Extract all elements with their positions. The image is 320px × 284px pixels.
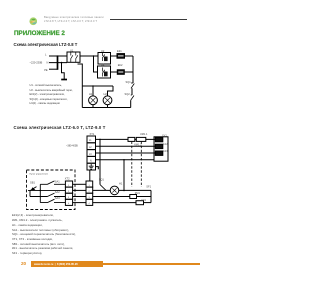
green heading [14,30,65,37]
wire U2 to EK1 [111,55,118,57]
terminal block XT1 [87,136,96,143]
SCHEMATIC 1 [0,0,200,284]
svg-text:2: 2 [89,191,91,193]
svg-text:Н1: Н1 [119,182,123,186]
legend schematic 1 [30,84,74,107]
PE down to terminal strip [89,170,91,181]
footer orange rule [103,263,200,265]
wire U1 to U2 [80,55,98,57]
contact KM1.2 [136,137,146,141]
SB1 arrow [31,187,37,191]
svg-text:L3: L3 [89,154,92,156]
dashed link KM1 left [131,142,133,187]
switch SQ1 [131,83,134,88]
control drop from L1 [99,139,101,184]
junction L feed to U3 [93,55,95,57]
wire PE [49,68,58,70]
lamp H1 [110,186,119,195]
svg-text:~380-400В: ~380-400В [66,145,78,148]
terminal strip right [86,181,93,187]
U1 contact a [71,52,73,62]
heater EK2 [117,70,124,75]
svg-text:4: 4 [68,203,70,205]
row link 2 [73,189,86,191]
lamp feed wire [82,85,113,87]
svg-text:3: 3 [89,197,91,199]
heater EK2 [155,144,163,148]
svg-text:КМ1.2: КМ1.2 [134,143,142,147]
svg-text:ХТ1: ХТ1 [90,132,95,136]
PE symbol in box5 [89,164,94,169]
wire to lamp [93,189,111,191]
EK box [154,137,168,161]
svg-text:SA1: SA1 [55,179,60,183]
junction lamp wire / N drop [123,190,125,192]
junction lamp H1 feed [92,85,94,87]
header logo [29,17,38,26]
svg-text:N: N [90,161,92,163]
control panel dashed box [27,170,76,210]
SA vertical link [39,184,41,202]
svg-text:1: 1 [68,185,70,187]
subtitle 1 [14,42,78,47]
wire L [49,55,67,57]
svg-text:L2: L2 [89,147,92,149]
N drop [123,160,125,191]
switch SQ2 [131,95,134,100]
SCHEMATIC 2 [0,0,200,284]
svg-text:SB1: SB1 [30,181,35,185]
lamp H1 drop [92,86,94,96]
phase wire L3 [96,152,156,154]
svg-text:SA2: SA2 [55,190,60,194]
ground branch wire [62,63,65,80]
wire EK1 to bus [125,55,134,57]
wire U3 to EK2 [111,71,118,73]
switch box U1 [67,52,80,62]
svg-text:ХТ2: ХТ2 [65,176,70,180]
svg-text:КМ1: КМ1 [135,191,141,195]
row link 4 [73,202,86,204]
lamp H2 [103,96,112,105]
phase wire L1 [96,138,156,140]
wire N exit down bus [78,64,83,108]
branch lower [93,202,136,204]
footer page number [21,261,26,266]
ground bar [61,79,67,81]
dashed link KM1 right [140,142,142,187]
right bus upper [132,56,134,83]
junction at N / ground branch [61,62,63,64]
wire EK2 to bus [124,71,133,73]
contact KM1.1 [128,137,135,141]
footer orange bar [31,261,104,267]
heater EK1 [155,137,163,141]
coil KM1 [130,195,137,199]
bottom bus [82,107,130,109]
switch SA3 row [40,199,65,202]
junction L1 / control drop [99,139,101,141]
wire N [96,159,155,161]
phase wire L2 [96,145,156,147]
thermostat U3 [98,66,111,78]
link B to C [29,190,31,196]
svg-text:КМ1.1: КМ1.1 [140,132,148,136]
lamp H2 elbow [108,86,114,96]
heater EK3 [155,151,163,155]
header rule [110,19,187,20]
svg-text:Пульт управления: Пульт управления [30,174,49,176]
svg-text:1: 1 [89,185,91,187]
svg-text:ЕК3: ЕК3 [163,149,168,153]
svg-text:4: 4 [89,203,91,205]
bus lower [130,100,132,107]
subtitle 2 [14,125,106,130]
svg-text:2: 2 [68,191,70,193]
terminal strip XT2 [65,181,72,187]
right bus [150,190,152,202]
branch to U3 [94,56,98,72]
header text [44,16,104,19]
wire N [49,62,67,64]
svg-text:SA3: SA3 [55,196,60,200]
row link 3 [73,196,86,198]
switch SB1 row [28,189,65,191]
svg-text:L1: L1 [89,140,92,142]
svg-text:SQ1: SQ1 [99,177,105,181]
coil branch [93,196,130,198]
bus mid [131,88,133,95]
svg-text:ЕК1: ЕК1 [162,133,167,137]
junction SB1 bus [40,190,42,192]
PE chassis wire [96,167,99,170]
XT2-XT3 row link 1 [73,183,86,185]
plug bar [57,55,59,69]
switch SA1 row [40,181,65,184]
svg-text:КК1: КК1 [142,198,147,202]
lamp to bus [119,189,151,191]
switch SQ1 [100,185,106,191]
heater EK1 [117,54,125,59]
thermostat U2 [98,53,111,65]
lamp H1 [89,96,98,105]
svg-text:SF1: SF1 [146,184,151,188]
legend schematic 2 [12,213,76,255]
junction N / lamp drop [123,159,125,161]
svg-text:3: 3 [68,197,70,199]
component lower [136,201,144,205]
svg-text:ЕК2: ЕК2 [163,142,168,146]
switch SA2 row [30,193,65,196]
U1 contact b [76,52,78,62]
